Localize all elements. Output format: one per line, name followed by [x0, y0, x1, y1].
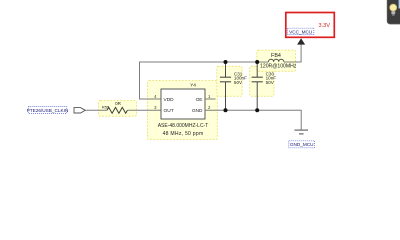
ground symbol: [295, 130, 309, 134]
svg-text:GND: GND: [192, 108, 203, 114]
pin name GND: [192, 108, 203, 114]
capacitor C31: [220, 62, 231, 110]
junction dot bottom rail C30: [255, 108, 259, 112]
svg-text:3.3V: 3.3V: [318, 23, 330, 29]
pin name OUT: [164, 108, 174, 114]
net label PTE26/USB_CLKIN: [27, 107, 69, 114]
wire port to resistor: [85, 109, 107, 111]
svg-text:Y4: Y4: [190, 83, 196, 89]
svg-text:OUT: OUT: [164, 108, 174, 114]
pin name OE: [196, 97, 203, 103]
highlight box oscillator Y4: [147, 81, 217, 140]
pin number 1: [208, 94, 211, 99]
svg-text:50V: 50V: [266, 80, 275, 85]
svg-text:ASE-48.000MHZ-LC-T: ASE-48.000MHZ-LC-T: [158, 123, 209, 129]
port PTE26/USB_CLKIN: [74, 108, 85, 113]
wire FB4 to VCC arrow: [284, 44, 301, 62]
svg-text:VDD: VDD: [164, 97, 175, 103]
highlight box capacitor C31: [217, 66, 242, 96]
value 120R@100MHz: [260, 63, 297, 69]
label C30 10nF 50V: [266, 71, 277, 85]
pin 1 OE stub: [205, 98, 216, 100]
pin number 2: [208, 105, 211, 110]
highlight box resistor R55: [99, 101, 137, 117]
svg-text:VCC_MCU: VCC_MCU: [289, 30, 313, 35]
svg-text:OE: OE: [196, 97, 203, 103]
wire resistor to pin3 OUT: [127, 109, 162, 111]
svg-text:0R: 0R: [115, 101, 122, 106]
wire pin4 VDD to left vertical and top rail: [140, 62, 269, 99]
refdes Y4: [190, 83, 196, 89]
highlight box ferrite bead FB4: [257, 50, 296, 71]
pin name VDD: [164, 97, 175, 103]
value 3.3V: [318, 23, 330, 29]
oscillator U body Y4: [161, 89, 205, 119]
resistor R55 zigzag: [107, 107, 127, 113]
highlight box capacitor C30: [250, 66, 274, 96]
svg-text:PTE26/USB_CLKIN: PTE26/USB_CLKIN: [27, 108, 69, 113]
pin number 3: [154, 105, 157, 110]
svg-text:GND_MCU: GND_MCU: [290, 142, 314, 147]
capacitor C30: [252, 62, 263, 110]
pin number 4: [154, 94, 157, 99]
net label GND_MCU: [289, 141, 315, 148]
value ASE-48.000MHZ-LC-T: [158, 123, 209, 129]
svg-text:48 MHz, 50 ppm: 48 MHz, 50 ppm: [163, 131, 204, 137]
svg-text:FB4: FB4: [271, 53, 281, 59]
ferrite bead FB4 coil: [269, 59, 284, 62]
junction dot top rail C31: [224, 60, 228, 64]
lightbulb hint panel: [387, 0, 400, 24]
net label VCC_MCU: [288, 28, 314, 34]
label C31 100nF 50V: [234, 71, 247, 85]
svg-text:120R@100MHz: 120R@100MHz: [260, 63, 297, 69]
junction dot top rail C30: [255, 60, 259, 64]
value 0R: [115, 101, 122, 106]
power symbol VCC arrow: [297, 38, 305, 44]
value 48 MHz, 50 ppm: [163, 131, 204, 137]
red marker box VCC: [286, 13, 335, 38]
blue sliver top-right: [399, 0, 400, 9]
junction dot bottom rail C31: [224, 108, 228, 112]
svg-text:R55: R55: [102, 105, 110, 110]
label FB4: [271, 53, 281, 59]
svg-text:50V: 50V: [234, 80, 243, 85]
label R55: [102, 105, 110, 110]
wire GND rail pin2 to ground drop: [205, 110, 301, 129]
